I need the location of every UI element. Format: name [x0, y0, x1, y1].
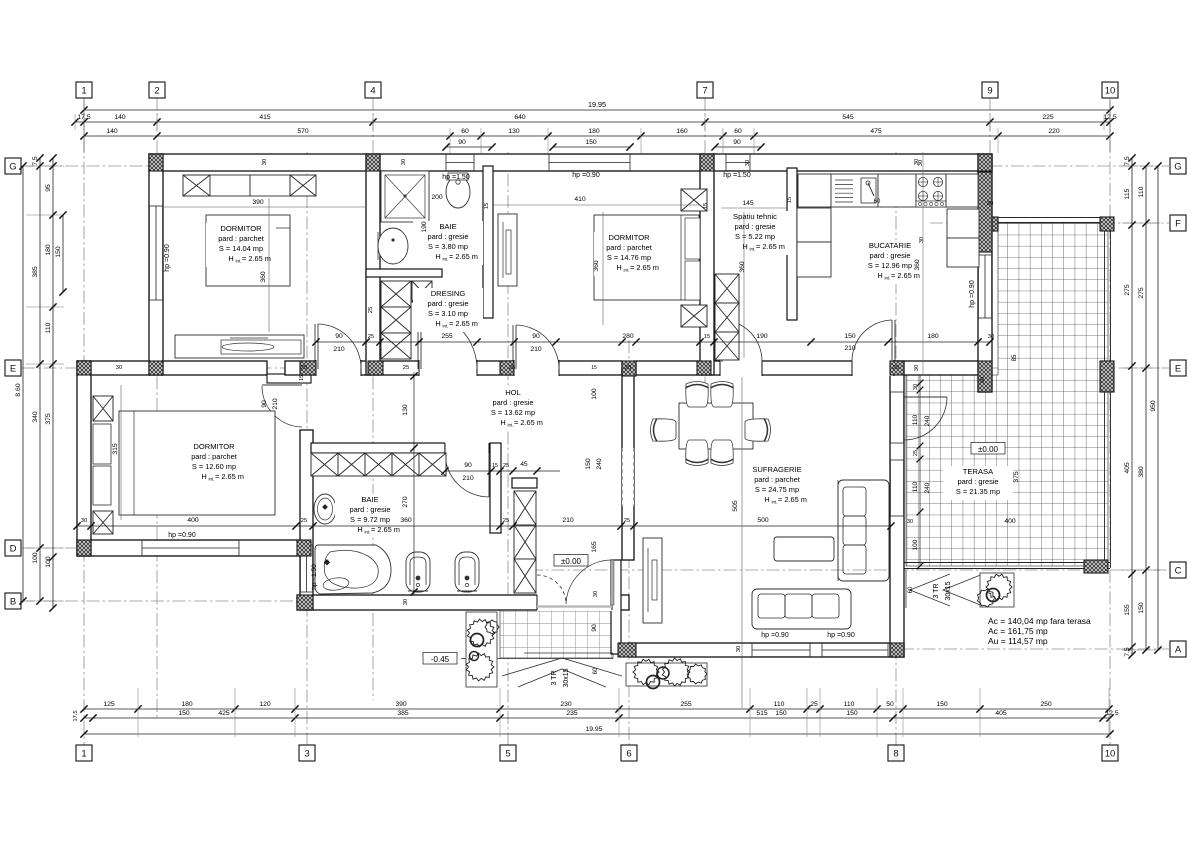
svg-text:85: 85	[1012, 354, 1018, 361]
svg-text:240: 240	[924, 482, 931, 493]
svg-text:190: 190	[756, 333, 768, 340]
svg-text:19.95: 19.95	[588, 100, 606, 109]
svg-text:15: 15	[484, 203, 490, 209]
svg-text:360: 360	[593, 260, 600, 272]
svg-text:S = 14.76 mp: S = 14.76 mp	[607, 253, 651, 262]
svg-text:25: 25	[893, 365, 899, 371]
svg-text:H: H	[764, 495, 769, 504]
svg-text:210: 210	[844, 345, 856, 352]
svg-text:155: 155	[1124, 604, 1131, 616]
svg-text:210: 210	[272, 398, 279, 410]
svg-text:30: 30	[736, 646, 742, 652]
svg-text:int.: int.	[236, 259, 242, 264]
svg-text:250: 250	[1040, 701, 1052, 708]
svg-text:25: 25	[913, 450, 919, 456]
svg-text:425: 425	[218, 710, 230, 717]
svg-text:15: 15	[703, 203, 709, 209]
svg-text:F: F	[1175, 218, 1181, 229]
svg-text:6: 6	[626, 748, 631, 759]
svg-text:3 TR: 3 TR	[933, 583, 940, 598]
svg-text:30: 30	[745, 160, 751, 166]
svg-text:180: 180	[181, 701, 193, 708]
svg-text:DORMITOR: DORMITOR	[193, 442, 235, 451]
svg-text:210: 210	[562, 517, 574, 524]
svg-text:210: 210	[530, 346, 542, 353]
svg-text:pard : gresie: pard : gresie	[734, 222, 775, 231]
svg-text:19.95: 19.95	[585, 726, 602, 733]
svg-text:375: 375	[1013, 471, 1020, 483]
svg-text:400: 400	[1004, 518, 1016, 525]
svg-text:235: 235	[566, 710, 578, 717]
svg-text:210: 210	[333, 346, 345, 353]
svg-text:255: 255	[441, 333, 453, 340]
svg-text:90: 90	[458, 139, 466, 146]
svg-text:30: 30	[403, 599, 409, 605]
svg-text:360: 360	[400, 517, 412, 524]
svg-text:150: 150	[844, 333, 856, 340]
svg-text:1: 1	[81, 85, 86, 96]
svg-text:30: 30	[262, 159, 268, 165]
svg-text:±0.00: ±0.00	[978, 445, 999, 454]
svg-text:90: 90	[464, 462, 472, 469]
svg-text:500: 500	[757, 517, 769, 524]
svg-text:150: 150	[775, 710, 787, 717]
svg-text:H: H	[228, 254, 233, 263]
svg-text:225: 225	[1042, 114, 1054, 121]
svg-text:= 2.65 m: = 2.65 m	[756, 242, 785, 251]
svg-text:255: 255	[680, 701, 692, 708]
svg-text:S = 12.96 mp: S = 12.96 mp	[868, 261, 912, 270]
svg-text:360: 360	[739, 261, 746, 273]
svg-text:H: H	[742, 242, 747, 251]
svg-text:210: 210	[462, 475, 474, 482]
svg-text:50: 50	[886, 701, 894, 708]
svg-text:315: 315	[112, 443, 119, 455]
svg-text:110: 110	[912, 414, 919, 425]
svg-text:hp =0.90: hp =0.90	[969, 280, 976, 308]
svg-text:240: 240	[596, 458, 603, 470]
svg-text:160: 160	[676, 128, 688, 135]
svg-text:3 TR: 3 TR	[551, 670, 558, 685]
svg-text:180: 180	[588, 128, 600, 135]
svg-text:H: H	[500, 418, 505, 427]
svg-text:90: 90	[591, 624, 598, 632]
svg-text:30x15: 30x15	[945, 581, 952, 600]
svg-text:150: 150	[846, 710, 858, 717]
svg-text:S = 5.22 mp: S = 5.22 mp	[735, 232, 775, 241]
svg-text:340: 340	[32, 411, 39, 423]
svg-text:12.5: 12.5	[1105, 710, 1118, 717]
svg-text:130: 130	[508, 128, 520, 135]
svg-text:int.: int.	[365, 530, 371, 535]
svg-text:30: 30	[593, 591, 599, 597]
svg-text:hp =1.50: hp =1.50	[311, 564, 318, 590]
svg-text:640: 640	[514, 114, 526, 121]
svg-text:7.5: 7.5	[32, 156, 39, 166]
svg-text:HOL: HOL	[505, 388, 521, 397]
svg-text:180: 180	[45, 244, 52, 256]
svg-text:= 2.65 m: = 2.65 m	[778, 495, 807, 504]
svg-text:int.: int.	[508, 423, 514, 428]
svg-text:360: 360	[914, 259, 921, 271]
svg-text:pard : parchet: pard : parchet	[754, 475, 800, 484]
svg-text:pard : gresie: pard : gresie	[869, 251, 910, 260]
svg-text:360: 360	[260, 271, 267, 283]
svg-text:150: 150	[1138, 602, 1145, 614]
svg-text:S = 3.80 mp: S = 3.80 mp	[428, 242, 468, 251]
svg-text:145: 145	[742, 200, 754, 207]
svg-text:25: 25	[503, 518, 509, 524]
svg-text:275: 275	[1138, 287, 1145, 299]
svg-text:390: 390	[395, 701, 407, 708]
svg-text:int.: int.	[443, 257, 449, 262]
svg-text:8.60: 8.60	[15, 383, 22, 396]
svg-text:DORMITOR: DORMITOR	[220, 224, 262, 233]
svg-text:25: 25	[368, 334, 374, 340]
svg-text:S = 14.04 mp: S = 14.04 mp	[219, 244, 263, 253]
svg-text:15: 15	[704, 334, 710, 340]
svg-text:Ac = 161,75 mp: Ac = 161,75 mp	[988, 626, 1048, 636]
svg-text:60: 60	[874, 199, 881, 205]
svg-text:8: 8	[893, 748, 898, 759]
svg-text:D: D	[10, 543, 17, 554]
svg-text:30: 30	[913, 384, 919, 390]
svg-text:int.: int.	[772, 500, 778, 505]
svg-text:pard : gresie: pard : gresie	[427, 232, 468, 241]
svg-text:TERASA: TERASA	[963, 467, 994, 476]
svg-text:415: 415	[259, 114, 271, 121]
svg-text:410: 410	[574, 196, 586, 203]
svg-text:110: 110	[1138, 186, 1145, 197]
svg-text:= 2.65 m: = 2.65 m	[449, 252, 478, 261]
svg-text:405: 405	[1124, 462, 1131, 474]
svg-text:G: G	[1174, 161, 1181, 172]
svg-text:A: A	[1175, 644, 1182, 655]
svg-text:S = 21.35 mp: S = 21.35 mp	[956, 487, 1000, 496]
svg-text:230: 230	[560, 701, 572, 708]
svg-text:140: 140	[114, 114, 126, 121]
svg-text:30: 30	[988, 334, 994, 340]
svg-text:pard : parchet: pard : parchet	[191, 452, 237, 461]
svg-text:pard : gresie: pard : gresie	[957, 477, 998, 486]
svg-text:= 2.65 m: = 2.65 m	[630, 263, 659, 272]
svg-text:SUFRAGERIE: SUFRAGERIE	[752, 465, 801, 474]
svg-text:hp =0.90: hp =0.90	[168, 532, 196, 539]
svg-text:110: 110	[45, 322, 52, 333]
svg-text:15: 15	[787, 197, 793, 203]
svg-text:30: 30	[980, 377, 986, 383]
svg-text:150: 150	[55, 246, 62, 258]
svg-text:190: 190	[421, 221, 428, 233]
svg-text:385: 385	[397, 710, 409, 717]
svg-text:270: 270	[402, 496, 409, 508]
svg-text:475: 475	[870, 128, 882, 135]
svg-text:200: 200	[431, 194, 443, 201]
svg-text:380: 380	[1138, 466, 1145, 478]
svg-text:G: G	[9, 161, 16, 172]
svg-text:110: 110	[844, 701, 855, 708]
svg-text:H: H	[616, 263, 621, 272]
svg-text:30: 30	[987, 201, 993, 207]
svg-text:165: 165	[591, 541, 598, 553]
svg-text:hp =1.50: hp =1.50	[723, 172, 751, 179]
svg-text:1: 1	[81, 748, 86, 759]
svg-text:275: 275	[1124, 284, 1131, 296]
svg-text:2: 2	[154, 85, 159, 96]
svg-text:3: 3	[304, 748, 309, 759]
svg-text:= 2.65 m: = 2.65 m	[449, 319, 478, 328]
svg-text:25: 25	[625, 365, 631, 371]
svg-text:25: 25	[301, 365, 307, 371]
svg-text:25: 25	[503, 463, 509, 469]
svg-text:545: 545	[842, 114, 854, 121]
svg-text:int.: int.	[443, 324, 449, 329]
svg-text:110: 110	[912, 481, 919, 492]
svg-text:Spatiu tehnic: Spatiu tehnic	[733, 212, 777, 221]
svg-text:hp =0.90: hp =0.90	[761, 632, 789, 639]
svg-text:25: 25	[301, 518, 307, 524]
svg-text:9: 9	[987, 85, 992, 96]
svg-text:4: 4	[370, 85, 375, 96]
svg-text:Au = 114,57 mp: Au = 114,57 mp	[988, 636, 1048, 646]
svg-text:950: 950	[1150, 400, 1157, 412]
svg-text:240: 240	[924, 415, 931, 426]
svg-text:60: 60	[908, 586, 914, 593]
svg-text:110: 110	[774, 701, 785, 708]
svg-text:60: 60	[734, 128, 742, 135]
svg-text:385: 385	[32, 266, 39, 278]
svg-text:-0.45: -0.45	[431, 655, 450, 664]
svg-text:5: 5	[505, 748, 510, 759]
svg-text:S = 13.62 mp: S = 13.62 mp	[491, 408, 535, 417]
svg-text:25: 25	[403, 365, 409, 371]
svg-text:17.5: 17.5	[73, 710, 79, 721]
svg-text:E: E	[10, 363, 16, 374]
svg-text:100: 100	[912, 539, 919, 550]
svg-text:150: 150	[936, 701, 948, 708]
svg-text:150: 150	[585, 139, 597, 146]
svg-text:60: 60	[461, 128, 469, 135]
svg-text:= 2.65 m: = 2.65 m	[891, 271, 920, 280]
svg-text:30: 30	[401, 159, 407, 165]
svg-text:DRESING: DRESING	[431, 289, 466, 298]
svg-text:30: 30	[81, 518, 87, 524]
svg-text:10: 10	[1105, 748, 1116, 759]
svg-text:BAIE: BAIE	[439, 222, 456, 231]
svg-text:60: 60	[593, 667, 599, 674]
svg-text:int.: int.	[624, 268, 630, 273]
svg-text:hp =0.90: hp =0.90	[572, 172, 600, 179]
svg-text:C: C	[1175, 565, 1182, 576]
svg-text:280: 280	[622, 333, 634, 340]
svg-text:150: 150	[178, 710, 190, 717]
svg-text:570: 570	[297, 128, 309, 135]
svg-text:pard : parchet: pard : parchet	[606, 243, 652, 252]
svg-text:25: 25	[624, 518, 630, 524]
svg-text:390: 390	[252, 199, 264, 206]
svg-text:S = 9.72 mp: S = 9.72 mp	[350, 515, 390, 524]
svg-text:H: H	[877, 271, 882, 280]
svg-text:= 2.65 m: = 2.65 m	[514, 418, 543, 427]
svg-text:505: 505	[732, 500, 739, 512]
svg-text:±0.00: ±0.00	[561, 557, 582, 566]
svg-text:515: 515	[756, 710, 768, 717]
svg-text:7.5: 7.5	[1124, 647, 1131, 657]
svg-text:pard : gresie: pard : gresie	[349, 505, 390, 514]
svg-text:E: E	[1175, 363, 1181, 374]
svg-text:int.: int.	[885, 276, 891, 281]
svg-text:int.: int.	[750, 247, 756, 252]
svg-text:220: 220	[1048, 128, 1060, 135]
svg-text:BUCATARIE: BUCATARIE	[869, 241, 911, 250]
svg-text:S = 12.60 mp: S = 12.60 mp	[192, 462, 236, 471]
svg-text:H: H	[435, 319, 440, 328]
svg-text:15: 15	[492, 463, 498, 469]
svg-text:100: 100	[591, 388, 598, 400]
svg-text:150: 150	[585, 458, 592, 470]
svg-text:15: 15	[299, 375, 305, 381]
svg-text:125: 125	[103, 701, 115, 708]
svg-text:7.5: 7.5	[1124, 156, 1131, 166]
svg-text:140: 140	[106, 128, 118, 135]
svg-text:25: 25	[368, 307, 374, 313]
svg-text:400: 400	[187, 517, 199, 524]
svg-text:hp =0.90: hp =0.90	[827, 632, 855, 639]
svg-text:90: 90	[335, 333, 343, 340]
svg-text:int.: int.	[209, 477, 215, 482]
svg-text:30x15: 30x15	[563, 668, 570, 687]
svg-text:95: 95	[45, 184, 52, 192]
svg-text:405: 405	[995, 710, 1007, 717]
svg-text:90: 90	[261, 400, 268, 408]
svg-text:30: 30	[919, 237, 925, 243]
svg-text:B: B	[10, 596, 16, 607]
svg-text:90: 90	[733, 139, 741, 146]
svg-text:10: 10	[1105, 85, 1116, 96]
svg-text:hp =0.90: hp =0.90	[164, 244, 171, 272]
svg-text:S = 3.10 mp: S = 3.10 mp	[428, 309, 468, 318]
svg-text:90: 90	[532, 333, 540, 340]
svg-text:= 2.65 m: = 2.65 m	[215, 472, 244, 481]
svg-text:30: 30	[914, 365, 920, 371]
svg-text:25: 25	[509, 365, 515, 371]
svg-text:H: H	[435, 252, 440, 261]
svg-text:H: H	[201, 472, 206, 481]
svg-text:= 2.65 m: = 2.65 m	[242, 254, 271, 263]
svg-text:pard : parchet: pard : parchet	[218, 234, 264, 243]
svg-text:S = 24.75 mp: S = 24.75 mp	[755, 485, 799, 494]
svg-text:pard : gresie: pard : gresie	[427, 299, 468, 308]
svg-text:30: 30	[116, 365, 122, 371]
svg-text:100: 100	[32, 552, 39, 564]
svg-text:Ac = 140,04 mp fara terasa: Ac = 140,04 mp fara terasa	[988, 616, 1091, 626]
svg-text:hp =1.50: hp =1.50	[442, 174, 470, 181]
svg-text:30: 30	[914, 159, 920, 165]
svg-text:30: 30	[907, 519, 913, 525]
svg-text:15: 15	[591, 365, 597, 371]
svg-text:120: 120	[259, 701, 271, 708]
svg-text:DORMITOR: DORMITOR	[608, 233, 650, 242]
svg-text:115: 115	[1124, 188, 1131, 199]
svg-text:25: 25	[810, 701, 818, 708]
svg-text:100: 100	[45, 556, 52, 568]
svg-text:375: 375	[45, 413, 52, 425]
svg-text:45: 45	[520, 461, 528, 468]
svg-text:pard : gresie: pard : gresie	[492, 398, 533, 407]
svg-text:180: 180	[927, 333, 939, 340]
svg-text:BAIE: BAIE	[361, 495, 378, 504]
svg-text:7: 7	[702, 85, 707, 96]
svg-text:130: 130	[402, 404, 409, 416]
